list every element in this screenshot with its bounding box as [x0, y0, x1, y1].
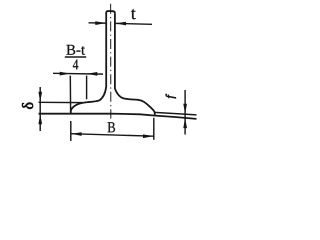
t left arrowhead	[95, 21, 106, 25]
label delta (rotated)	[22, 103, 33, 109]
delta top arrowhead (down)	[38, 92, 42, 102]
(B-t)/4 extension line at flange tip	[69, 76, 71, 112]
B dimension line	[71, 134, 154, 137]
delta bottom arrowhead (up)	[38, 114, 42, 124]
label t	[131, 9, 136, 19]
centerline (web axis, dash-dot)	[110, 4, 112, 119]
B right extension line	[153, 118, 155, 140]
f dimension line (vertical)	[184, 90, 186, 135]
web top cap	[106, 11, 115, 13]
(B-t)/4 extension line at quarter point	[86, 76, 88, 100]
f bottom arrowhead (up)	[183, 118, 187, 128]
f top arrowhead (down)	[183, 104, 187, 114]
(B-t)/4 dimension line	[53, 72, 103, 75]
B left extension line	[70, 121, 72, 141]
(B-t)/4 fraction bar	[65, 56, 86, 58]
label f (rotated)	[166, 94, 176, 98]
label B-t (numerator)	[66, 45, 85, 55]
(B-t)/4 left arrowhead	[60, 72, 70, 76]
delta dimension line (vertical)	[39, 87, 41, 131]
T-profile cross-section schematic	[39, 4, 197, 141]
t right arrowhead	[116, 22, 127, 26]
label 4 (denominator)	[73, 60, 78, 70]
label B	[108, 122, 115, 132]
B left arrowhead	[71, 132, 82, 136]
B right arrowhead	[143, 134, 154, 138]
delta top extension line	[39, 101, 84, 103]
f top extension line (from right flange tip)	[155, 112, 197, 115]
web left wall + left fillet + flange top surface (left)	[71, 13, 106, 114]
t dimension line left segment	[89, 22, 106, 24]
flange bottom line (with delta / f extension tails)	[39, 114, 197, 119]
(B-t)/4 right arrowhead	[87, 72, 98, 76]
t dimension line right segment	[116, 22, 152, 25]
web right wall + right fillet + flange top surface (right)	[115, 13, 155, 115]
